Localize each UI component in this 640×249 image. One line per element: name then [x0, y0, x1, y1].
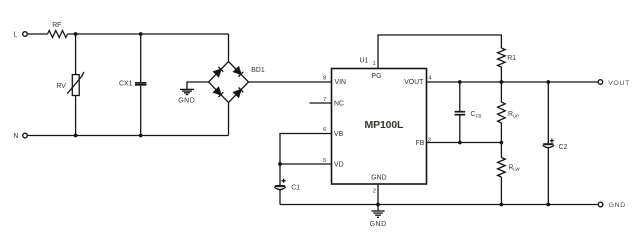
wire VOUT rail — [427, 81, 599, 83]
varistor RV — [56, 72, 83, 96]
svg-text:GND: GND — [370, 221, 387, 228]
wire C1 bottom lead — [279, 190, 281, 205]
junction top rail / CX1 — [139, 32, 143, 36]
junction VOUT rail / R1 RUP — [500, 80, 504, 84]
svg-text:4: 4 — [428, 76, 432, 82]
svg-text:2: 2 — [373, 189, 376, 195]
IC U1 MP100L body — [332, 57, 427, 184]
capacitor C1 polarized — [274, 179, 300, 192]
wire R1 bottom to VOUT rail — [500, 67, 502, 82]
junction VB/VD node — [278, 162, 282, 166]
svg-text:MP100L: MP100L — [365, 119, 405, 131]
capacitor CX1 — [119, 81, 146, 88]
terminal GND — [598, 202, 626, 209]
junction VOUT rail / CFB — [458, 80, 462, 84]
junction bottom rail / RV — [74, 134, 78, 138]
diode BD1 bottom-left — [214, 87, 221, 94]
svg-text:8: 8 — [323, 76, 326, 82]
capacitor C2 polarized — [543, 139, 568, 151]
pin 4 VOUT label — [404, 76, 432, 87]
wire L to RF — [27, 33, 47, 35]
pin 7 NC stub — [310, 97, 344, 108]
diode BD1 bottom-right — [234, 90, 241, 97]
junction ground rail / RLW — [500, 203, 504, 207]
svg-text:FB: FB — [476, 114, 482, 119]
wire RLW bottom lead — [500, 177, 502, 205]
diode BD1 top-right — [234, 67, 241, 74]
junction top rail / RV — [74, 32, 78, 36]
ground (bridge) — [178, 89, 195, 104]
pin 5 VD label — [323, 158, 344, 169]
svg-text:C1: C1 — [291, 184, 300, 191]
svg-text:L: L — [13, 32, 17, 39]
wire pin 1 PG to R1 top — [378, 35, 501, 69]
svg-text:LW: LW — [513, 167, 520, 172]
wire pin 2 GND stub — [377, 184, 379, 205]
svg-text:6: 6 — [323, 127, 326, 133]
svg-text:VB: VB — [334, 131, 344, 138]
svg-text:C2: C2 — [559, 144, 568, 151]
wire C2 top lead — [547, 82, 549, 143]
pin 1 PG label — [372, 61, 382, 80]
wire bridge bottom stub — [228, 103, 230, 136]
pin 2 GND label — [371, 175, 386, 195]
pin 3 FB label — [416, 138, 431, 148]
capacitor CFB — [455, 111, 482, 118]
wire CX1 top lead — [140, 34, 142, 82]
terminal L — [13, 32, 27, 39]
svg-text:NC: NC — [334, 101, 344, 108]
svg-text:RV: RV — [56, 83, 66, 90]
wire CX1 bottom lead — [140, 86, 142, 136]
junction ground rail / pin 2 — [376, 203, 380, 207]
svg-text:PG: PG — [372, 73, 382, 80]
junction ground rail / C2 — [546, 203, 550, 207]
wire top rail RF to bridge top — [68, 33, 229, 35]
wire VD pin 5 — [280, 163, 332, 165]
wire bridge right to VIN pin 8 — [249, 81, 332, 83]
diode BD1 top-left — [214, 69, 221, 76]
svg-text:VOUT: VOUT — [404, 79, 424, 86]
svg-text:VD: VD — [334, 162, 344, 169]
svg-text:GND: GND — [178, 98, 195, 105]
svg-text:VIN: VIN — [335, 79, 347, 86]
resistor RUP — [498, 102, 520, 123]
svg-text:BD1: BD1 — [251, 67, 265, 74]
ground (pin 2) — [370, 205, 387, 229]
wire bridge left to ground — [187, 82, 209, 89]
wire bottom ground rail — [280, 204, 598, 206]
wire FB pin 3 to divider — [427, 142, 502, 144]
junction FB wire / RUP RLW — [500, 141, 504, 145]
wire bottom rail N to bridge bottom — [27, 135, 228, 137]
pin 8 VIN label — [323, 76, 346, 87]
svg-text:FB: FB — [416, 140, 425, 147]
junction VOUT rail / C2 — [546, 80, 550, 84]
terminal N — [13, 133, 27, 140]
svg-text:U1: U1 — [360, 57, 369, 64]
svg-text:GND: GND — [371, 175, 386, 182]
wire bridge top stub — [228, 34, 230, 62]
svg-text:R1: R1 — [507, 55, 516, 62]
wire RUP top lead — [500, 82, 502, 102]
resistor R1 — [498, 48, 517, 67]
wire RLW top lead — [500, 143, 502, 158]
svg-text:N: N — [13, 133, 18, 140]
wire RUP bottom lead — [500, 123, 502, 143]
terminal VOUT — [598, 80, 630, 88]
junction FB wire / CFB — [458, 141, 462, 145]
resistor RLW — [498, 158, 521, 178]
wire CFB bottom lead — [459, 115, 461, 142]
resistor RF — [48, 22, 68, 37]
junction bottom rail / CX1 — [139, 134, 143, 138]
pin 6 VB label — [323, 127, 344, 138]
wire CFB top lead — [459, 82, 461, 111]
bridge rectifier BD1 — [209, 62, 265, 103]
svg-text:RF: RF — [52, 22, 61, 29]
svg-text:7: 7 — [323, 97, 326, 103]
wire RV top lead — [75, 34, 77, 75]
svg-text:UP: UP — [513, 114, 519, 119]
svg-text:VOUT: VOUT — [608, 80, 630, 87]
wire RV bottom lead — [75, 96, 77, 136]
svg-text:GND: GND — [609, 202, 626, 209]
wire VB pin 6 left and down — [280, 134, 332, 186]
svg-text:CX1: CX1 — [119, 81, 133, 88]
wire C2 bottom lead — [547, 148, 549, 205]
svg-text:1: 1 — [373, 61, 376, 67]
svg-text:5: 5 — [323, 158, 326, 164]
